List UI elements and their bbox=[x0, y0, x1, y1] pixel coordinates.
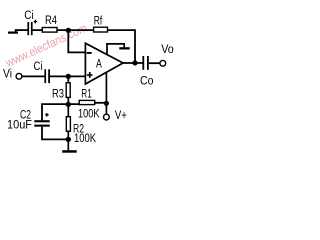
svg-text:Ci: Ci bbox=[24, 10, 34, 22]
svg-text:V+: V+ bbox=[115, 110, 127, 122]
op-amp inverting input marker (-) bbox=[87, 52, 92, 54]
wire: node B down to R2 bbox=[67, 104, 69, 116]
wire: C2 bottom to ground junction bbox=[42, 127, 68, 140]
capacitor Ci (signal input coupling) bbox=[44, 69, 50, 83]
node output junction bbox=[132, 60, 137, 65]
resistor R4 bbox=[42, 28, 57, 33]
wire: node B rail to C2 riser and R1 bbox=[42, 104, 79, 120]
op-amp U1 bbox=[85, 43, 123, 84]
node N3 (R1 / V+ junction) bbox=[104, 101, 109, 106]
terminal Vo bbox=[160, 60, 166, 66]
terminal V+ bbox=[104, 114, 110, 120]
wire: R4 to node N1 and on to Rf bbox=[57, 29, 94, 31]
svg-text:R4: R4 bbox=[45, 15, 57, 27]
svg-text:10uF: 10uF bbox=[7, 120, 32, 132]
node B (bias divider midpoint) bbox=[66, 102, 71, 107]
wire: R3 bottom to node B bbox=[67, 97, 69, 104]
capacitor Co (output coupling) bbox=[142, 56, 148, 70]
wire: op-amp output to Co bbox=[123, 62, 143, 64]
svg-text:R3: R3 bbox=[52, 88, 64, 100]
wire: Co to Vo terminal bbox=[149, 62, 160, 64]
wire: node N2 down to R3 bbox=[67, 76, 69, 82]
node N1 (inverting input node) bbox=[66, 28, 71, 33]
ground G1 (top-left) bbox=[8, 29, 18, 34]
ground G2 (bottom) bbox=[62, 139, 76, 152]
svg-text:100K: 100K bbox=[74, 133, 96, 145]
watermark www.elecfans.com bbox=[3, 21, 90, 71]
resistor Rf bbox=[94, 27, 108, 32]
wire: R2 bottom to ground junction bbox=[67, 131, 69, 139]
wire: ground G1 to capacitor Ci1 bbox=[16, 29, 28, 31]
node N2 (non-inverting input / R3 top) bbox=[66, 74, 71, 79]
resistor R1 bbox=[79, 100, 95, 104]
wire: node N1 down and right to op-amp inverting input bbox=[68, 30, 85, 52]
terminal Vi bbox=[16, 73, 22, 79]
wire: R1 right to node N3 bbox=[95, 102, 107, 104]
ground (op-amp V- pin) bbox=[107, 44, 130, 54]
op-amp non-inverting input marker (+) bbox=[87, 72, 93, 78]
wire: op-amp V+ pin down to node N3 and terminal bbox=[105, 72, 107, 114]
resistor R2 bbox=[66, 117, 70, 132]
svg-text:Vi: Vi bbox=[3, 68, 12, 80]
svg-text:A: A bbox=[96, 58, 102, 70]
resistor R3 bbox=[66, 83, 70, 98]
node ground junction bbox=[66, 137, 71, 142]
svg-text:Ci: Ci bbox=[34, 61, 43, 73]
wire: Ci1 to R4 bbox=[33, 29, 43, 31]
wire: Ci2 to op-amp non-inverting input bbox=[50, 75, 86, 77]
wire: Vi to capacitor Ci2 bbox=[22, 75, 45, 77]
svg-text:R1: R1 bbox=[81, 88, 92, 100]
capacitor Ci (inverting-input bias, polarized) bbox=[27, 20, 37, 35]
svg-text:100K: 100K bbox=[78, 108, 100, 120]
svg-text:Rf: Rf bbox=[94, 16, 103, 28]
capacitor C2 (bypass, polarized) bbox=[34, 113, 49, 127]
svg-text:Co: Co bbox=[140, 75, 154, 87]
wire: Rf to output node (feedback) bbox=[108, 30, 136, 63]
svg-text:Vo: Vo bbox=[161, 44, 174, 56]
